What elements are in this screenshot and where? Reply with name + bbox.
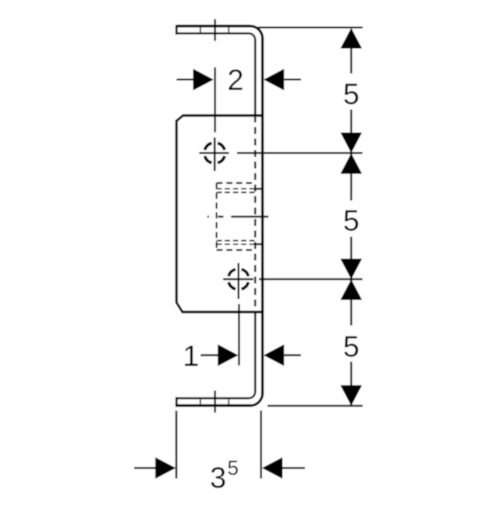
dimension 2: dimension line left arrow (177, 79, 194, 81)
chain extension line 4 (bottom) (268, 405, 363, 407)
top flange left end cap (175, 25, 177, 35)
hidden nut thread lines (upper pair) (217, 189, 256, 193)
chain arrow up below line 2 (340, 153, 362, 174)
upper hole arcs (205, 143, 225, 163)
upper hole centerline extension to chain (line 2) (237, 152, 363, 154)
nut thread ticks across web (255, 189, 262, 244)
top flange tick marks (200, 27, 228, 32)
hidden nut thread lines (lower pair) (217, 241, 256, 245)
bottom flange centerline tick (214, 391, 216, 413)
chain arrow up at top line (340, 28, 362, 49)
chain arrow down at bottom line (340, 385, 362, 406)
lower hole arcs (229, 269, 249, 289)
dimension 2: right arrow (284, 79, 301, 81)
lower hole horizontal centerline (223, 278, 254, 280)
chain arrow down at line 3 (340, 259, 362, 280)
dimension 1: leader and left arrow (201, 354, 219, 356)
web inner hidden line (dashed behind plate) (254, 116, 256, 313)
chain text 5 (second) (344, 210, 358, 231)
bottom dimension extension line right (260, 411, 262, 479)
top flange inner line and bend (177, 33, 256, 115)
web inner solid below plate + bottom flange inner line (177, 312, 256, 398)
chain arrow down at line 2 (340, 133, 362, 154)
dimension 1: text (185, 346, 198, 366)
chain text 5 (first) (344, 84, 358, 105)
chain extension line 1 (top) (258, 26, 363, 28)
nut horizontal centerline (dash-dot) (207, 216, 268, 218)
lower hole vertical centerline (238, 263, 241, 366)
bottom dimension left arrow (134, 467, 156, 469)
top flange centerline tick (214, 19, 216, 41)
bottom dimension text 3 with superscript 5 (211, 467, 225, 488)
dimension 1: right arrow (284, 354, 301, 356)
bottom dimension extension line left (175, 411, 177, 479)
upper hole horizontal centerline (199, 152, 229, 154)
bottom flange tick marks (200, 399, 228, 404)
bottom flange left end cap (175, 397, 177, 407)
chain text 5 (third) (344, 336, 358, 357)
upper hole vertical centerline (214, 67, 216, 171)
chain arrow up below line 3 (340, 279, 362, 300)
hidden nut square dashed outline (217, 183, 256, 250)
bottom dimension right arrow (283, 467, 306, 469)
bracket outer profile (top flange top line, right web outer, bottom flange bottom line) (177, 26, 263, 406)
lower hole centerline extension to chain (line 3) (259, 278, 363, 280)
front plate outline with chamfered left corners (177, 116, 263, 313)
chain dimension line segments (350, 29, 352, 405)
dimension 2 text (229, 69, 242, 90)
